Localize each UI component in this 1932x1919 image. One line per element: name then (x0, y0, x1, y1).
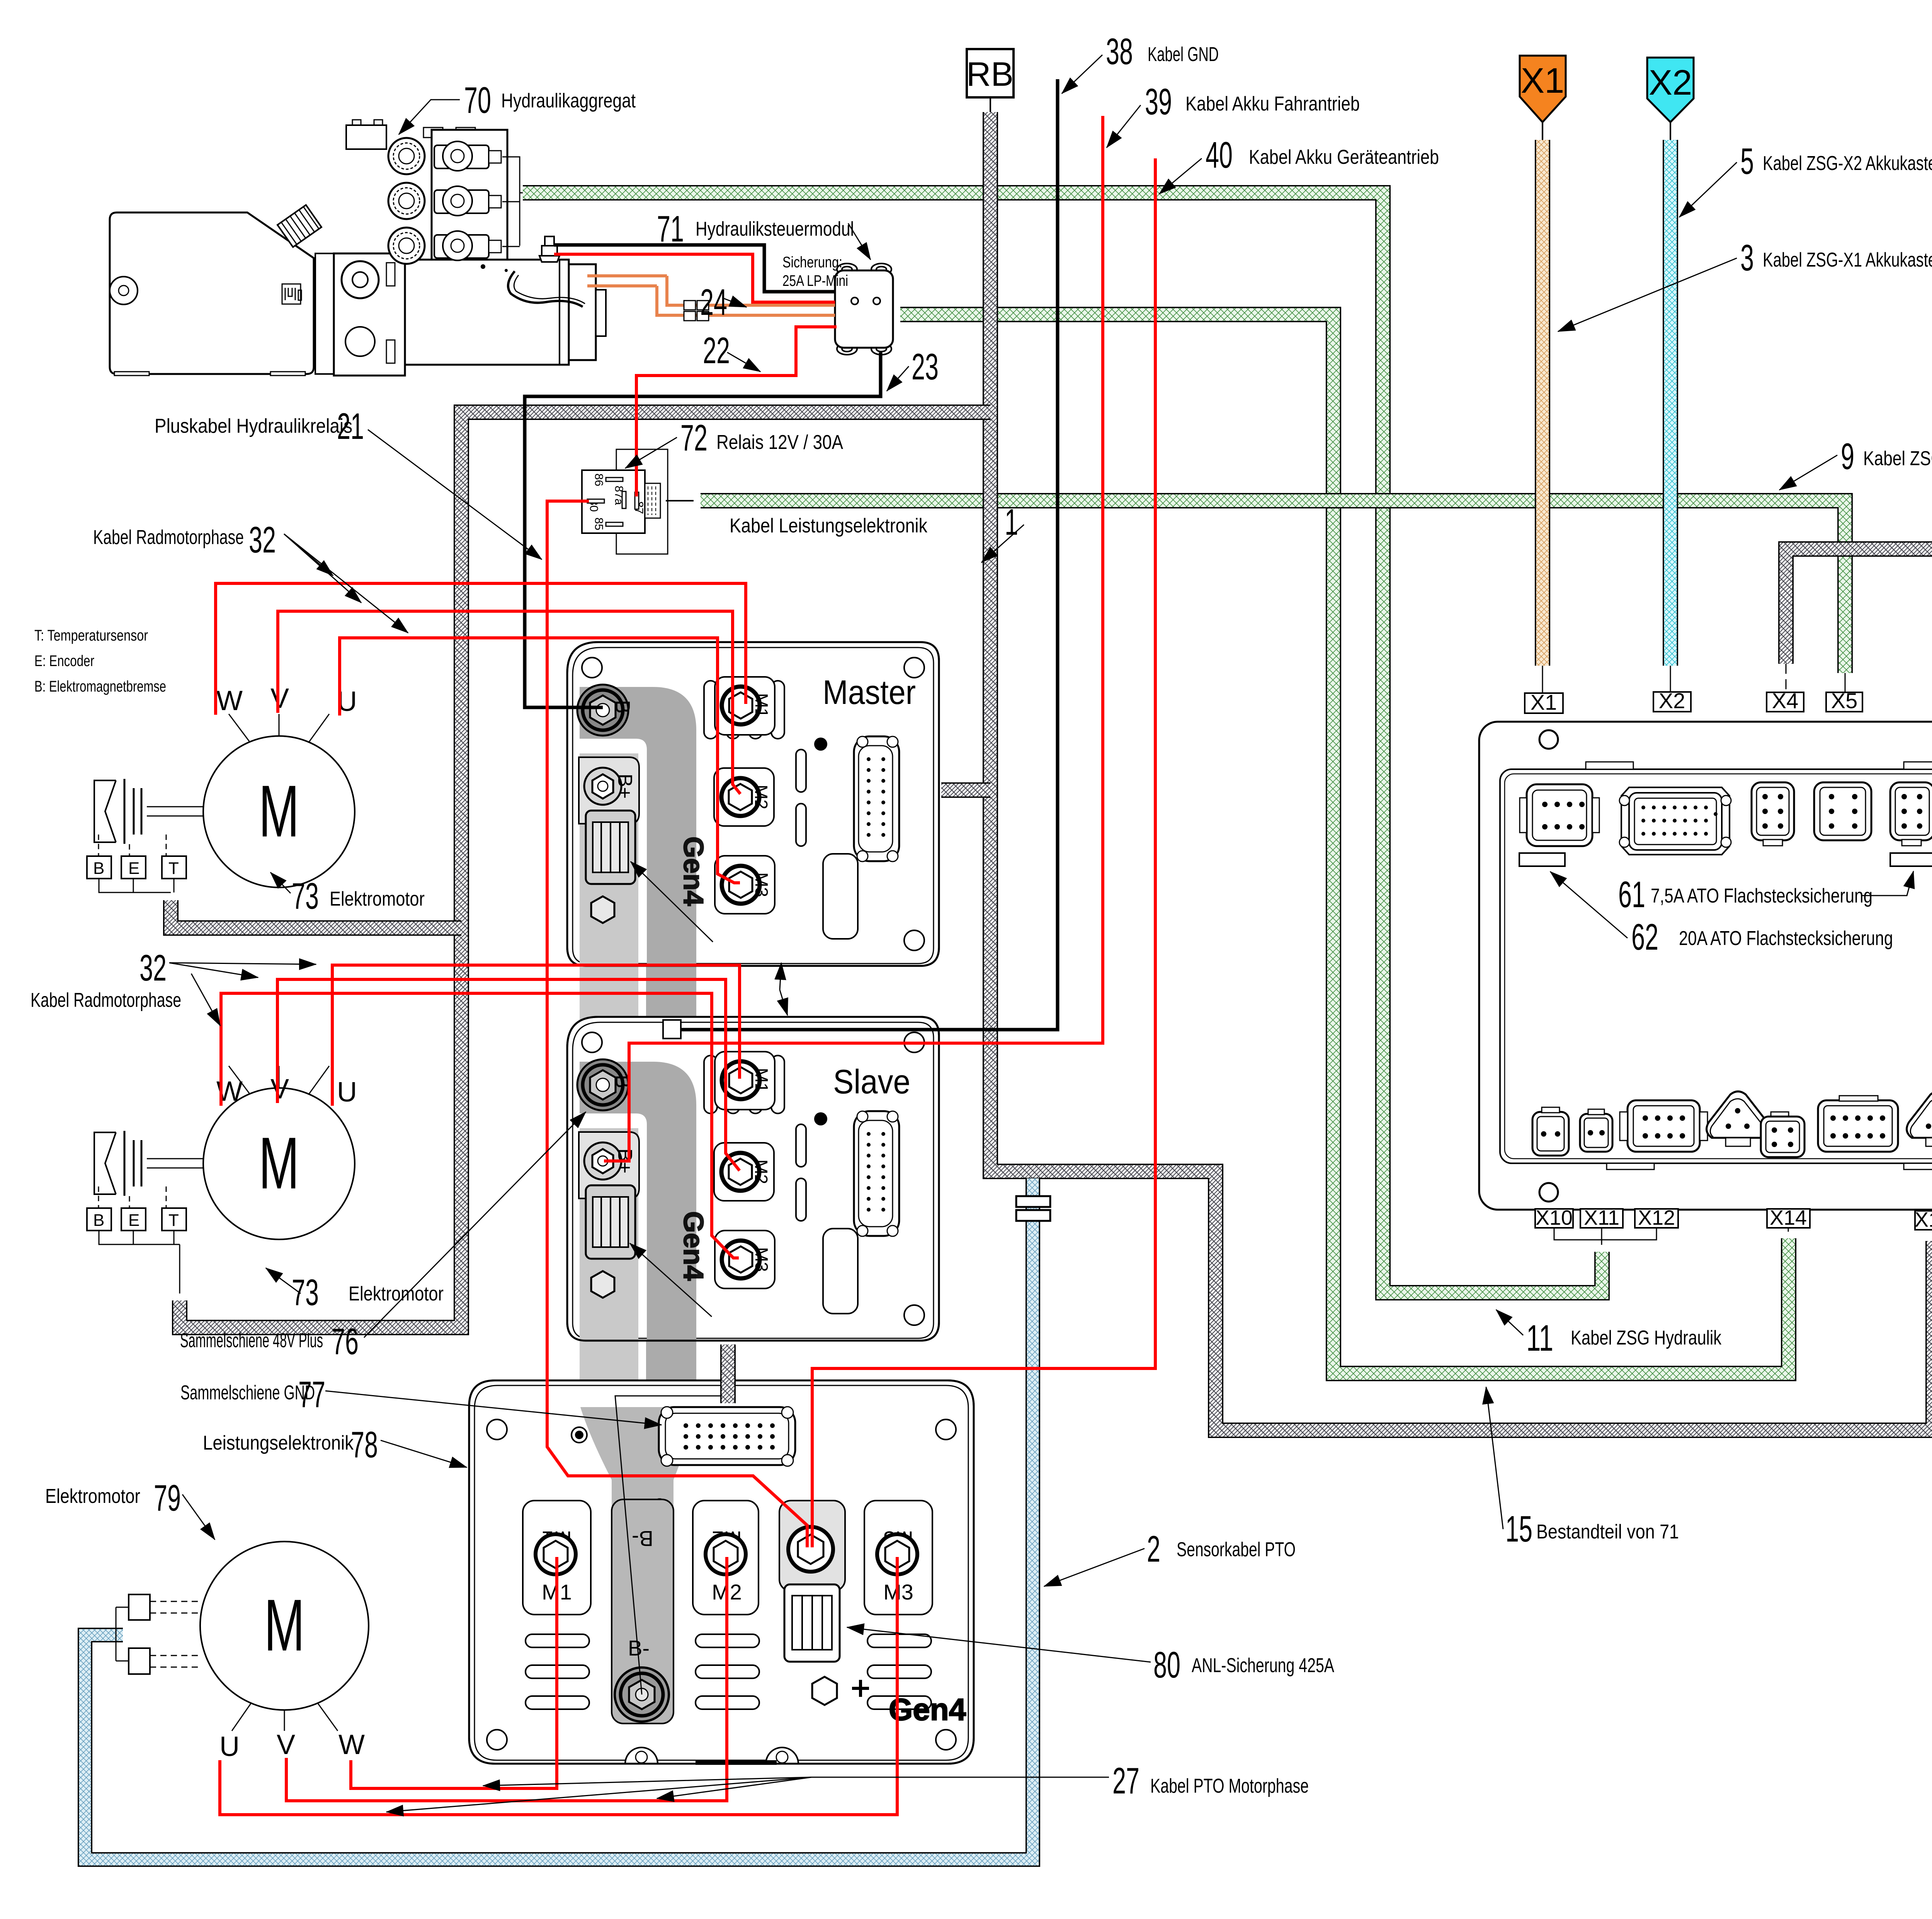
fuse 75 ANL-Sicherung 250A (586, 811, 635, 884)
svg-text:X2: X2 (1649, 63, 1692, 102)
terminal M1 (PTO) (523, 1501, 591, 1615)
svg-text:21: 21 (337, 406, 364, 447)
svg-text:72: 72 (680, 417, 707, 459)
electric motor 79 (PTO motor) (116, 1542, 369, 1762)
ZSG connector: 21-pin main (1619, 787, 1731, 855)
svg-text:3: 3 (1740, 237, 1754, 279)
wire 22 (red, module to relay 87) (636, 327, 837, 496)
wire 39 Kabel Akku Fahrantrieb (red, to Slave B+) (604, 116, 1103, 1161)
svg-text:Master: Master (823, 673, 916, 711)
svg-text:E: E (128, 1211, 139, 1230)
svg-text:Leistungselektronik: Leistungselektronik (203, 1432, 354, 1454)
cable 1 Kabel Leistungselektronik (gray harness RB to X16) (990, 112, 1932, 1430)
wire 32 motor2 U to Slave M1 (red) (332, 965, 740, 1106)
cable 9 Kabel ZSG-X5 Hydraulik Relais (green harness from relay to X5) (701, 501, 1845, 673)
leader Kabel Leistungselektronik 1 (981, 525, 1024, 563)
terminal M1 (715, 677, 775, 735)
svg-text:B-: B- (632, 1526, 653, 1551)
controller 74 Leistungselektronik Slave (567, 1017, 939, 1368)
svg-text:7,5A ATO Flachstecksicherung: 7,5A ATO Flachstecksicherung (1651, 885, 1872, 907)
svg-text:80: 80 (1153, 1644, 1180, 1686)
leader 9 (1779, 455, 1837, 490)
svg-text:5: 5 (1740, 141, 1754, 182)
ZSG connector 2x3 d (1890, 782, 1932, 846)
svg-text:78: 78 (351, 1424, 378, 1465)
svg-text:M1: M1 (752, 693, 772, 718)
svg-text:M3: M3 (752, 872, 772, 897)
svg-text:Sensorkabel PTO: Sensorkabel PTO (1177, 1538, 1296, 1561)
ZSG fuse 61 holder (7,5A) (1890, 853, 1932, 866)
ZSG bottom row: conn 4x2 (1620, 1100, 1708, 1152)
svg-text:Gen4: Gen4 (678, 836, 709, 906)
connector label X1 (1525, 666, 1563, 714)
leader 73 motor1 (270, 872, 291, 893)
svg-text:M: M (259, 1122, 299, 1204)
leader 15 (1486, 1387, 1503, 1529)
ZSG fuse 62 holder (20A) (1519, 853, 1565, 866)
leader 24 (723, 298, 747, 307)
svg-text:B+: B+ (614, 773, 636, 799)
cable 5 Kabel ZSG-X2 Akkukasten (cyan bar below X2 flag) (1663, 140, 1678, 666)
leader 72 (625, 437, 677, 468)
status LED (814, 738, 827, 751)
wire 27 PTO motor V to M2 (red) (286, 1557, 727, 1801)
svg-text:M: M (264, 1584, 305, 1666)
svg-text:W: W (216, 685, 243, 716)
leader 27 (483, 1777, 1109, 1786)
leader 75 Slave (630, 1243, 712, 1317)
connector label X4 (1767, 664, 1804, 713)
thin sensor line PTO B- (615, 1378, 728, 1695)
svg-text:38: 38 (1106, 31, 1133, 72)
leader 74 (780, 963, 781, 990)
wire orange pair (pump solenoid to module) (587, 276, 835, 315)
wire 32 motor2 W to Slave M3 (red) (221, 993, 739, 1258)
svg-text:M: M (259, 770, 299, 852)
svg-text:32: 32 (139, 947, 167, 989)
leader 79 (182, 1494, 215, 1540)
ZSG bottom row: triangle conn b (1907, 1091, 1932, 1146)
cable 3 Kabel ZSG-X1 Akkukasten (tan bar below X1 flag) (1535, 140, 1550, 666)
ZSG connector row top: conn A 2x4 (1520, 784, 1599, 846)
leader 39 (1107, 105, 1141, 148)
wire 38 Kabel GND (black) (677, 79, 1058, 1030)
svg-text:Kabel Radmotorphase: Kabel Radmotorphase (93, 526, 244, 549)
connector pair on cable 2 (1016, 1196, 1050, 1221)
svg-text:Kabel Radmotorphase: Kabel Radmotorphase (31, 989, 181, 1011)
svg-text:Slave: Slave (833, 1062, 910, 1101)
svg-text:9: 9 (1841, 436, 1854, 477)
hydraulic unit 70 Hydraulikaggregat (110, 205, 606, 376)
controller U60 Zentralsteuergeraet (1479, 722, 1932, 1210)
svg-text:Kabel PTO Motorphase: Kabel PTO Motorphase (1150, 1775, 1309, 1797)
ZSG bottom row: conn 2x2 (1761, 1112, 1804, 1157)
leader 32 upper (284, 534, 333, 576)
svg-text:X10: X10 (1536, 1206, 1573, 1229)
svg-text:W: W (338, 1729, 365, 1760)
svg-text:40: 40 (1206, 134, 1233, 176)
23-pin connector (854, 736, 899, 861)
leader 23 (887, 366, 909, 391)
hydraulic valve block of 70 (346, 120, 523, 264)
svg-text:79: 79 (154, 1477, 181, 1519)
node X1 (orange jump flag) (1520, 56, 1566, 140)
connector label X14 (1767, 1206, 1810, 1232)
wire 23 (black, module to Master B-) (525, 352, 881, 707)
svg-text:70: 70 (464, 80, 491, 121)
wire 27 PTO motor W to M1 (red) (351, 1557, 557, 1788)
node X2 (cyan jump flag) (1647, 58, 1694, 140)
connector label X16 (1915, 1208, 1932, 1234)
svg-text:71: 71 (657, 208, 684, 250)
wire 27 PTO motor U to M3 (red) (220, 1557, 897, 1815)
svg-text:Kabel Akku Fahrantrieb: Kabel Akku Fahrantrieb (1185, 93, 1360, 115)
connector RB (966, 49, 1014, 112)
ZSG connector 2x3 c (1814, 782, 1871, 840)
svg-text:V: V (277, 1729, 295, 1760)
busbar 76 Sammelschiene 48V Plus (light gray vertical) (580, 688, 638, 1408)
svg-text:Kabel ZSG-X2 Akkukasten: Kabel ZSG-X2 Akkukasten (1763, 152, 1932, 175)
ZSG bottom row: conn 2x1 a (1532, 1107, 1569, 1156)
svg-text:25A LP-Mini: 25A LP-Mini (782, 272, 848, 289)
electric motor 73 (wheel motor 2) (87, 1066, 357, 1293)
connector label X12 (1635, 1206, 1678, 1229)
ZSG connector 2x3 b (1752, 782, 1794, 846)
svg-text:32: 32 (249, 519, 276, 561)
svg-text:73: 73 (292, 1272, 319, 1313)
wire 40 Kabel Akku Geraeteantrieb (red, to PTO B+) (812, 158, 1155, 1547)
svg-text:V: V (270, 1074, 289, 1105)
leader 21 (368, 430, 542, 559)
svg-text:Sammelschiene GND: Sammelschiene GND (180, 1382, 315, 1404)
svg-text:T: Temperatursensor: T: Temperatursensor (34, 627, 148, 644)
connector pair on orange wires (684, 301, 709, 321)
terminal M2 (PTO) (693, 1501, 759, 1615)
cable 11 Kabel ZSG Hydraulik (green harness from valve coils to X11) (523, 193, 1602, 1293)
connector 35-pin (659, 1407, 795, 1465)
wire 32 motor1 W to Master M1 (red) (216, 583, 746, 715)
connector label X2 (1653, 666, 1691, 713)
svg-text:X14: X14 (1770, 1206, 1807, 1229)
wire 24 black segment (pump to module) (554, 245, 835, 292)
svg-text:E: E (128, 859, 139, 878)
svg-text:B: B (93, 859, 104, 878)
svg-text:1: 1 (1005, 501, 1018, 543)
terminal B+ (PTO) (779, 1501, 845, 1591)
motor sensor harness (gray, to wheel motors) (171, 412, 990, 1327)
svg-text:M2: M2 (751, 785, 771, 809)
busbar 77 Sammelschiene GND (dark gray vertical) (646, 688, 696, 1408)
connector label X5 (1826, 673, 1862, 713)
controller 74 Leistungselektronik Master (567, 642, 939, 994)
fuse 80 ANL-Sicherung 425A (784, 1584, 840, 1662)
svg-text:B-: B- (611, 700, 634, 720)
svg-text:U: U (337, 1077, 357, 1108)
terminal B- (577, 685, 628, 736)
cable 12 Kabel ZSG-X4 Luefter (gray harness X4 to fan) (1786, 549, 1932, 664)
wire 32 motor2 V to Slave M2 (red) (277, 979, 740, 1171)
leader 11 (1496, 1310, 1523, 1335)
terminal M2 (714, 768, 774, 826)
svg-text:Kabel ZSG Hydraulik: Kabel ZSG Hydraulik (1571, 1327, 1722, 1349)
svg-text:39: 39 (1145, 81, 1172, 122)
wire 21 Pluskabel Hydraulikrelais (red, relay 30 to PTO B+) (547, 501, 807, 1547)
terminal M3 (PTO) (864, 1501, 932, 1615)
svg-text:T: T (168, 859, 179, 878)
svg-text:Hydraulikaggregat: Hydraulikaggregat (501, 90, 636, 112)
electric motor 73 (wheel motor 1) (87, 683, 357, 892)
svg-text:X4: X4 (1772, 688, 1799, 713)
svg-text:61: 61 (1618, 874, 1645, 915)
svg-text:X1: X1 (1521, 61, 1565, 100)
leader 2 (1044, 1548, 1145, 1586)
svg-text:T: T (168, 1211, 179, 1230)
wire relay to cable 9 (666, 500, 694, 501)
connector label X11 (1580, 1206, 1623, 1229)
leader 3 (1558, 258, 1737, 331)
svg-text:V: V (270, 683, 289, 714)
svg-text:Kabel ZSG-X1 Akkukasten: Kabel ZSG-X1 Akkukasten (1763, 249, 1932, 271)
ZSG bottom row: conn 6x2 (1818, 1096, 1898, 1152)
wire 24 red segment (pump to module) (554, 254, 835, 302)
pad on Slave top for GND wire (663, 1020, 681, 1039)
svg-text:Sicherung:: Sicherung: (782, 254, 842, 271)
leader 78 (381, 1440, 467, 1467)
svg-text:E: Encoder: E: Encoder (34, 653, 94, 670)
cable 1 stub to Master (941, 782, 990, 798)
svg-text:Sammelschiene 48V Plus: Sammelschiene 48V Plus (180, 1329, 323, 1352)
svg-text:Elektromotor: Elektromotor (330, 888, 425, 910)
leader 76 (364, 1112, 586, 1338)
leader 73 motor2 (266, 1268, 301, 1293)
relay 72 Relais 12V / 30A (582, 449, 668, 554)
svg-text:11: 11 (1526, 1317, 1553, 1359)
cable 15 Bestandteil von 71 (green harness from module 71 to X14) (900, 314, 1789, 1373)
svg-text:85: 85 (592, 517, 605, 530)
svg-text:Kabel ZSG-X5 Hydraulik Relais: Kabel ZSG-X5 Hydraulik Relais (1863, 447, 1932, 470)
svg-text:Elektromotor: Elektromotor (45, 1485, 140, 1508)
wire 32 motor1 U to Master M3 (red) (340, 638, 740, 883)
svg-text:Elektromotor: Elektromotor (349, 1283, 444, 1305)
leader 32 lower (169, 963, 316, 964)
wire 32 motor1 V to Master M2 (red) (278, 611, 740, 794)
leader 61 (1862, 871, 1913, 896)
svg-text:X5: X5 (1831, 688, 1858, 713)
svg-text:U: U (219, 1731, 240, 1762)
svg-text:B: Elektromagnetbremse: B: Elektromagnetbremse (34, 678, 166, 695)
leader 38 (1062, 55, 1102, 93)
svg-text:X16: X16 (1915, 1208, 1932, 1231)
svg-text:ANL-Sicherung 425A: ANL-Sicherung 425A (1192, 1654, 1334, 1677)
svg-text:Kabel GND: Kabel GND (1148, 43, 1219, 66)
svg-text:Relais 12V / 30A: Relais 12V / 30A (716, 431, 843, 454)
svg-text:Kabel Leistungselektronik: Kabel Leistungselektronik (730, 515, 928, 537)
svg-text:62: 62 (1631, 916, 1658, 958)
leader 5 (1679, 162, 1737, 217)
leader 62 (1550, 872, 1628, 938)
terminal B+ (579, 757, 639, 824)
svg-text:24: 24 (700, 282, 727, 323)
leader 71 (848, 223, 871, 260)
svg-text:X11: X11 (1584, 1206, 1619, 1229)
svg-text:Pluskabel Hydraulikrelais: Pluskabel Hydraulikrelais (155, 415, 352, 437)
wire bracket X10 X11 X12 (1554, 1228, 1656, 1245)
svg-text:23: 23 (912, 346, 939, 388)
svg-text:B: B (93, 1211, 104, 1230)
svg-text:RB: RB (966, 55, 1014, 93)
svg-text:22: 22 (703, 330, 730, 371)
svg-text:Hydrauliksteuermodul: Hydrauliksteuermodul (696, 218, 854, 240)
connector label X10 (1535, 1206, 1573, 1229)
leader 22 (727, 352, 760, 372)
svg-text:X1: X1 (1531, 690, 1557, 714)
leader 75 Master (631, 862, 713, 942)
svg-text:Bestandteil von 71: Bestandteil von 71 (1536, 1521, 1679, 1543)
svg-text:73: 73 (292, 875, 319, 917)
controller 78 Leistungselektronik (PTO Gen4) (469, 1380, 974, 1765)
terminal B- strip (PTO) (612, 1499, 673, 1724)
module 71 Hydrauliksteuermodul (835, 263, 893, 355)
svg-text:76: 76 (332, 1321, 359, 1362)
grille slots (526, 1499, 931, 1709)
svg-text:20A ATO Flachstecksicherung: 20A ATO Flachstecksicherung (1679, 927, 1893, 950)
svg-text:X2: X2 (1659, 688, 1685, 713)
svg-text:77: 77 (298, 1374, 325, 1415)
ZSG bottom row: conn 2x1 b (1580, 1109, 1612, 1152)
svg-text:86: 86 (592, 473, 605, 486)
leader 70 (399, 100, 460, 134)
terminal M3 (715, 856, 775, 914)
svg-text:27: 27 (1112, 1760, 1139, 1802)
svg-text:Gen4: Gen4 (889, 1692, 966, 1727)
svg-text:2: 2 (1147, 1528, 1160, 1570)
ZSG bottom row: triangle conn a (1707, 1091, 1770, 1146)
svg-text:Kabel Akku Geräteantrieb: Kabel Akku Geräteantrieb (1249, 146, 1439, 168)
leader 80 (847, 1627, 1151, 1662)
leader 40 (1159, 158, 1202, 194)
svg-text:15: 15 (1505, 1508, 1532, 1550)
svg-text:X12: X12 (1638, 1206, 1675, 1229)
cable 2 Sensorkabel PTO (light blue harness) (85, 1178, 1033, 1860)
leader 77 (325, 1391, 662, 1425)
gray stub cable to PTO connector (720, 1344, 736, 1403)
